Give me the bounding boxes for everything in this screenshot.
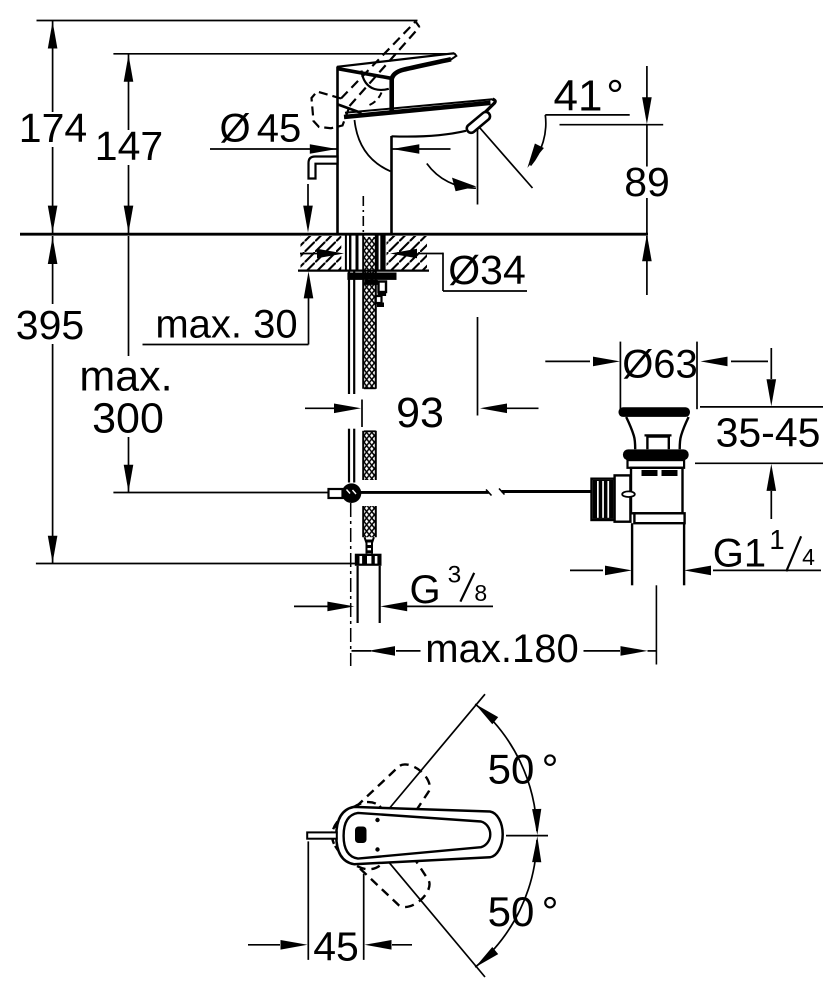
hose connector nut G3/8 (355, 554, 382, 566)
cartridge dome hidden dashes (370, 93, 382, 106)
max 300 bottom reference line (113, 492, 336, 494)
dimension 174 top extension line (37, 20, 418, 22)
dimension line 35-45 vertical (770, 348, 772, 379)
lever handle top edge (337, 53, 455, 67)
svg-text:Ø34: Ø34 (448, 247, 526, 293)
plan view lever dark marker (355, 827, 367, 844)
dimension line G1 1/4 (570, 569, 603, 571)
plan view handle dashed position up (324, 752, 443, 878)
lower 50 degree arc (475, 840, 537, 967)
dimension 45 right extension line (363, 874, 365, 960)
svg-text:89: 89 (624, 159, 670, 205)
mounting stud lines through deck (345, 236, 347, 271)
dimension line 395 vertical (52, 236, 54, 304)
raised lever dashed butt outline (312, 92, 350, 129)
dimension 35-45 top extension line (700, 406, 823, 408)
plan view dot lower (375, 847, 379, 851)
svg-text:174: 174 (19, 105, 87, 151)
drain extension line left (619, 342, 621, 410)
drain body step (634, 513, 684, 523)
svg-text:°: ° (542, 745, 559, 792)
svg-text:3: 3 (448, 562, 462, 589)
dimension 147 top extension line (113, 53, 455, 55)
spout underside curve (392, 131, 467, 137)
pop-up knob hook at rear (309, 157, 338, 179)
supply hose braid upper segment (364, 237, 375, 389)
drain tee body (615, 475, 631, 521)
dimension line max 300 vertical (128, 236, 130, 356)
dimension 89 top extension line (560, 124, 664, 126)
dimension max 30 lower arrow (304, 271, 314, 298)
plan view pop-up rod pin (307, 832, 337, 838)
plan view horizontal reference (506, 835, 548, 837)
spout underside sweep arc (355, 120, 391, 171)
aerator slot (465, 110, 492, 134)
spout tip closure (481, 99, 495, 116)
svg-text:300: 300 (92, 395, 164, 443)
dimension 395 bottom extension line (36, 563, 359, 565)
drain centerline (655, 585, 657, 664)
plan view handle dashed position down (324, 793, 443, 919)
cartridge dome arc (362, 71, 389, 90)
drain body (631, 468, 683, 514)
faucet body left edge (336, 67, 339, 234)
dimension line 45 (248, 944, 280, 946)
raised lever dashed edge B (350, 27, 420, 106)
drain seal washer (623, 449, 689, 460)
svg-text:Ø63: Ø63 (622, 343, 698, 387)
drain overflow slot left (642, 470, 658, 476)
drain dome right side (680, 417, 689, 449)
drain dome left side (626, 417, 635, 449)
lever handle tip (450, 53, 457, 60)
lower arc arrowhead at horizontal (532, 836, 541, 862)
spout top edge thin (345, 99, 493, 113)
plan view dot upper (375, 818, 379, 822)
dimension line max 180 left (352, 650, 372, 652)
dimension line 174 vertical (52, 21, 54, 113)
upper arc arrowhead at diagonal (475, 704, 498, 724)
dimension 45 left extension line (307, 841, 309, 960)
dimension line 93 left (305, 407, 336, 409)
svg-text:45: 45 (257, 106, 302, 150)
svg-text:8: 8 (474, 580, 487, 606)
svg-text:4: 4 (802, 544, 815, 570)
raised lever dashed edge A (341, 22, 416, 99)
mounting nut step 3 (377, 303, 384, 308)
lever pivot lower edge (338, 69, 391, 79)
ball joint (342, 483, 362, 503)
rod end connector (329, 489, 343, 498)
countertop bottom surface line (298, 269, 429, 271)
countertop hatch right (387, 236, 428, 270)
pop-up horizontal rod right segment (502, 490, 593, 493)
svg-text:G: G (410, 568, 441, 612)
svg-text:50: 50 (488, 745, 535, 792)
svg-text:1: 1 (769, 524, 784, 555)
mounting nut step bar (364, 280, 378, 285)
dimension line diameter 63 (545, 360, 590, 362)
svg-text:147: 147 (95, 123, 163, 169)
pop-up horizontal rod left segment (336, 491, 489, 494)
svg-text:45: 45 (313, 924, 359, 970)
plan view handle inner outline (344, 813, 491, 859)
mounting washer below deck (347, 273, 396, 280)
drain flange top (619, 407, 691, 417)
mounting nut step notch (376, 296, 382, 303)
body centerline above deck (362, 196, 364, 233)
drain tailpipe left edge (631, 523, 633, 585)
drain extension line right (696, 342, 698, 410)
svg-text:max.180: max.180 (425, 627, 578, 671)
41 degree label underline (545, 114, 629, 116)
dimension line max 180 right (584, 650, 621, 652)
svg-text:93: 93 (396, 389, 444, 437)
supply hose braid below rod (364, 506, 375, 537)
svg-text:35-45: 35-45 (716, 410, 821, 456)
dimension 35-45 bottom extension line (695, 462, 823, 464)
angle arc right of diagonal (531, 115, 546, 166)
angle arc left of outlet line (427, 164, 476, 189)
hose neck with thread (365, 537, 374, 554)
pop-up rod lower segment (348, 429, 350, 483)
dimension diameter 34 arrows (300, 253, 318, 255)
hose end tube (357, 566, 359, 623)
plan view diagonal reference lower (388, 861, 485, 977)
drain tailpipe right edge (683, 523, 685, 585)
dimension line 89 vertical (646, 66, 648, 98)
upper arc arrowhead at horizontal (532, 809, 541, 835)
diameter 34 leader lines (442, 253, 444, 291)
faucet head chamfer (338, 105, 362, 114)
svg-text:50: 50 (488, 888, 535, 935)
rod break marks (486, 490, 492, 496)
raised lever dashed tip (416, 22, 420, 28)
svg-text:°: ° (606, 72, 624, 121)
svg-text:Ø: Ø (219, 106, 250, 150)
spout top band thick (344, 103, 491, 117)
dimension line 147 vertical (128, 54, 130, 130)
max 30 label underline (143, 344, 309, 346)
upper 50 degree arc (475, 704, 537, 831)
angle arc right arrowhead (527, 144, 544, 168)
plan view handle outer outline (336, 807, 502, 864)
plan view diagonal reference upper (388, 694, 485, 810)
dimension line 93 right (480, 404, 507, 414)
spout outlet vertical reference line (477, 129, 479, 205)
faucet lower centerline (350, 503, 352, 666)
angle arc left arrowhead (452, 178, 476, 192)
supply hose braid lower segment (364, 431, 375, 480)
svg-text:max. 30: max. 30 (155, 303, 297, 347)
svg-text:G1: G1 (713, 532, 766, 576)
countertop top surface line (20, 233, 648, 236)
svg-text:41: 41 (554, 72, 603, 121)
dimension 93 axis tick (361, 400, 363, 428)
lower arc arrowhead at diagonal (475, 947, 498, 967)
mounting nut step 2 (378, 292, 387, 297)
drain tee set screw (622, 491, 635, 497)
dimension line G 3/8 (294, 605, 330, 607)
water stream diagonal line (480, 128, 533, 189)
drain center knob (647, 437, 668, 450)
dimension line diameter 45 (210, 148, 337, 150)
pop-up rod upper segment (348, 271, 350, 394)
drain tee knurled nut (592, 479, 615, 520)
mounting nut step window (379, 282, 387, 293)
svg-text:°: ° (542, 888, 559, 935)
svg-text:max.: max. (79, 353, 172, 401)
countertop hatch left (301, 236, 342, 270)
svg-text:395: 395 (16, 302, 84, 348)
lever handle underside and neck (392, 59, 451, 111)
faucet body right edge (390, 136, 393, 233)
dimension max 30 upper arrow (307, 184, 309, 206)
shank dark bar through deck (376, 236, 379, 271)
drain washer ring (628, 460, 685, 468)
drain overflow slot right (662, 470, 678, 476)
